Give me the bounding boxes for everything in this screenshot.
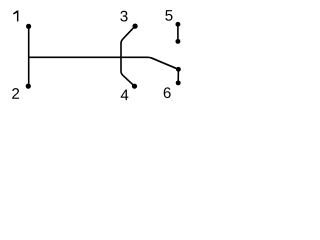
node 1 terminal dot — [26, 24, 31, 29]
wire: vertical bus between node 1 and node 2 — [28, 26, 30, 86]
label 6 — [164, 87, 171, 98]
wire: stub between node 6 contacts — [177, 69, 179, 83]
wire: stub between node 5 contacts — [177, 24, 179, 41]
label 4 — [121, 90, 129, 100]
node 2 terminal dot — [26, 84, 31, 89]
wire: branch from node 3 down through cross junction to node 4 — [121, 26, 135, 86]
node 4 terminal dot — [132, 84, 137, 89]
label 2 — [12, 88, 19, 99]
node 6 upper contact dot — [176, 67, 181, 72]
node 5 upper contact dot — [175, 22, 180, 27]
node 5 lower contact dot — [175, 39, 180, 44]
node 6 lower contact dot — [176, 80, 181, 85]
wire: horizontal run from 1-2 bus bending down to node 6 — [29, 57, 179, 69]
label 3 — [120, 11, 127, 22]
label 1 — [13, 10, 18, 21]
label 5 — [165, 10, 172, 21]
node 3 terminal dot — [133, 24, 138, 29]
